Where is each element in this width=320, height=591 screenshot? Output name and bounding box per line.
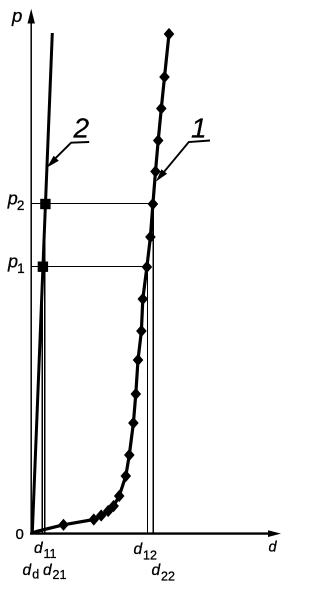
svg-text:1: 1 bbox=[191, 113, 207, 144]
svg-text:d: d bbox=[32, 568, 39, 582]
svg-text:d: d bbox=[152, 562, 162, 579]
svg-text:22: 22 bbox=[161, 570, 175, 584]
svg-text:d: d bbox=[134, 541, 144, 558]
svg-text:p: p bbox=[11, 5, 22, 26]
horizontal line p2 bbox=[32, 203, 154, 205]
svg-text:d: d bbox=[34, 540, 44, 557]
curve 1 polyline bbox=[34, 34, 170, 533]
curve 2 square marker at p1 bbox=[38, 262, 48, 272]
horizontal line p1 bbox=[32, 266, 148, 268]
curve 2 square marker at p2 bbox=[40, 199, 50, 209]
arrowhead for label 1 bbox=[156, 169, 167, 181]
vertical drop line d11 bbox=[41, 267, 43, 533]
x-axis arrowhead bbox=[268, 530, 281, 537]
svg-text:d: d bbox=[23, 562, 33, 579]
svg-text:1: 1 bbox=[17, 261, 25, 276]
svg-text:12: 12 bbox=[143, 549, 157, 563]
vertical drop line d21 bbox=[44, 204, 46, 533]
svg-text:0: 0 bbox=[16, 526, 24, 543]
leader line for label 1 bbox=[160, 141, 211, 178]
x-axis bbox=[30, 532, 270, 534]
curve 1 diamond markers bbox=[58, 28, 174, 531]
vertical drop line d22 bbox=[152, 204, 154, 533]
vertical drop line d12 bbox=[147, 267, 149, 533]
svg-text:2: 2 bbox=[17, 198, 25, 213]
svg-text:d: d bbox=[43, 562, 53, 579]
svg-text:21: 21 bbox=[53, 568, 67, 582]
svg-text:11: 11 bbox=[44, 547, 57, 561]
leader line for label 2 bbox=[51, 142, 90, 163]
curve 2 line bbox=[32, 33, 52, 533]
svg-text:d: d bbox=[269, 540, 278, 556]
y-axis bbox=[30, 20, 32, 535]
arrowhead for label 2 bbox=[47, 156, 59, 168]
svg-text:2: 2 bbox=[73, 113, 90, 144]
y-axis arrowhead bbox=[28, 9, 35, 24]
